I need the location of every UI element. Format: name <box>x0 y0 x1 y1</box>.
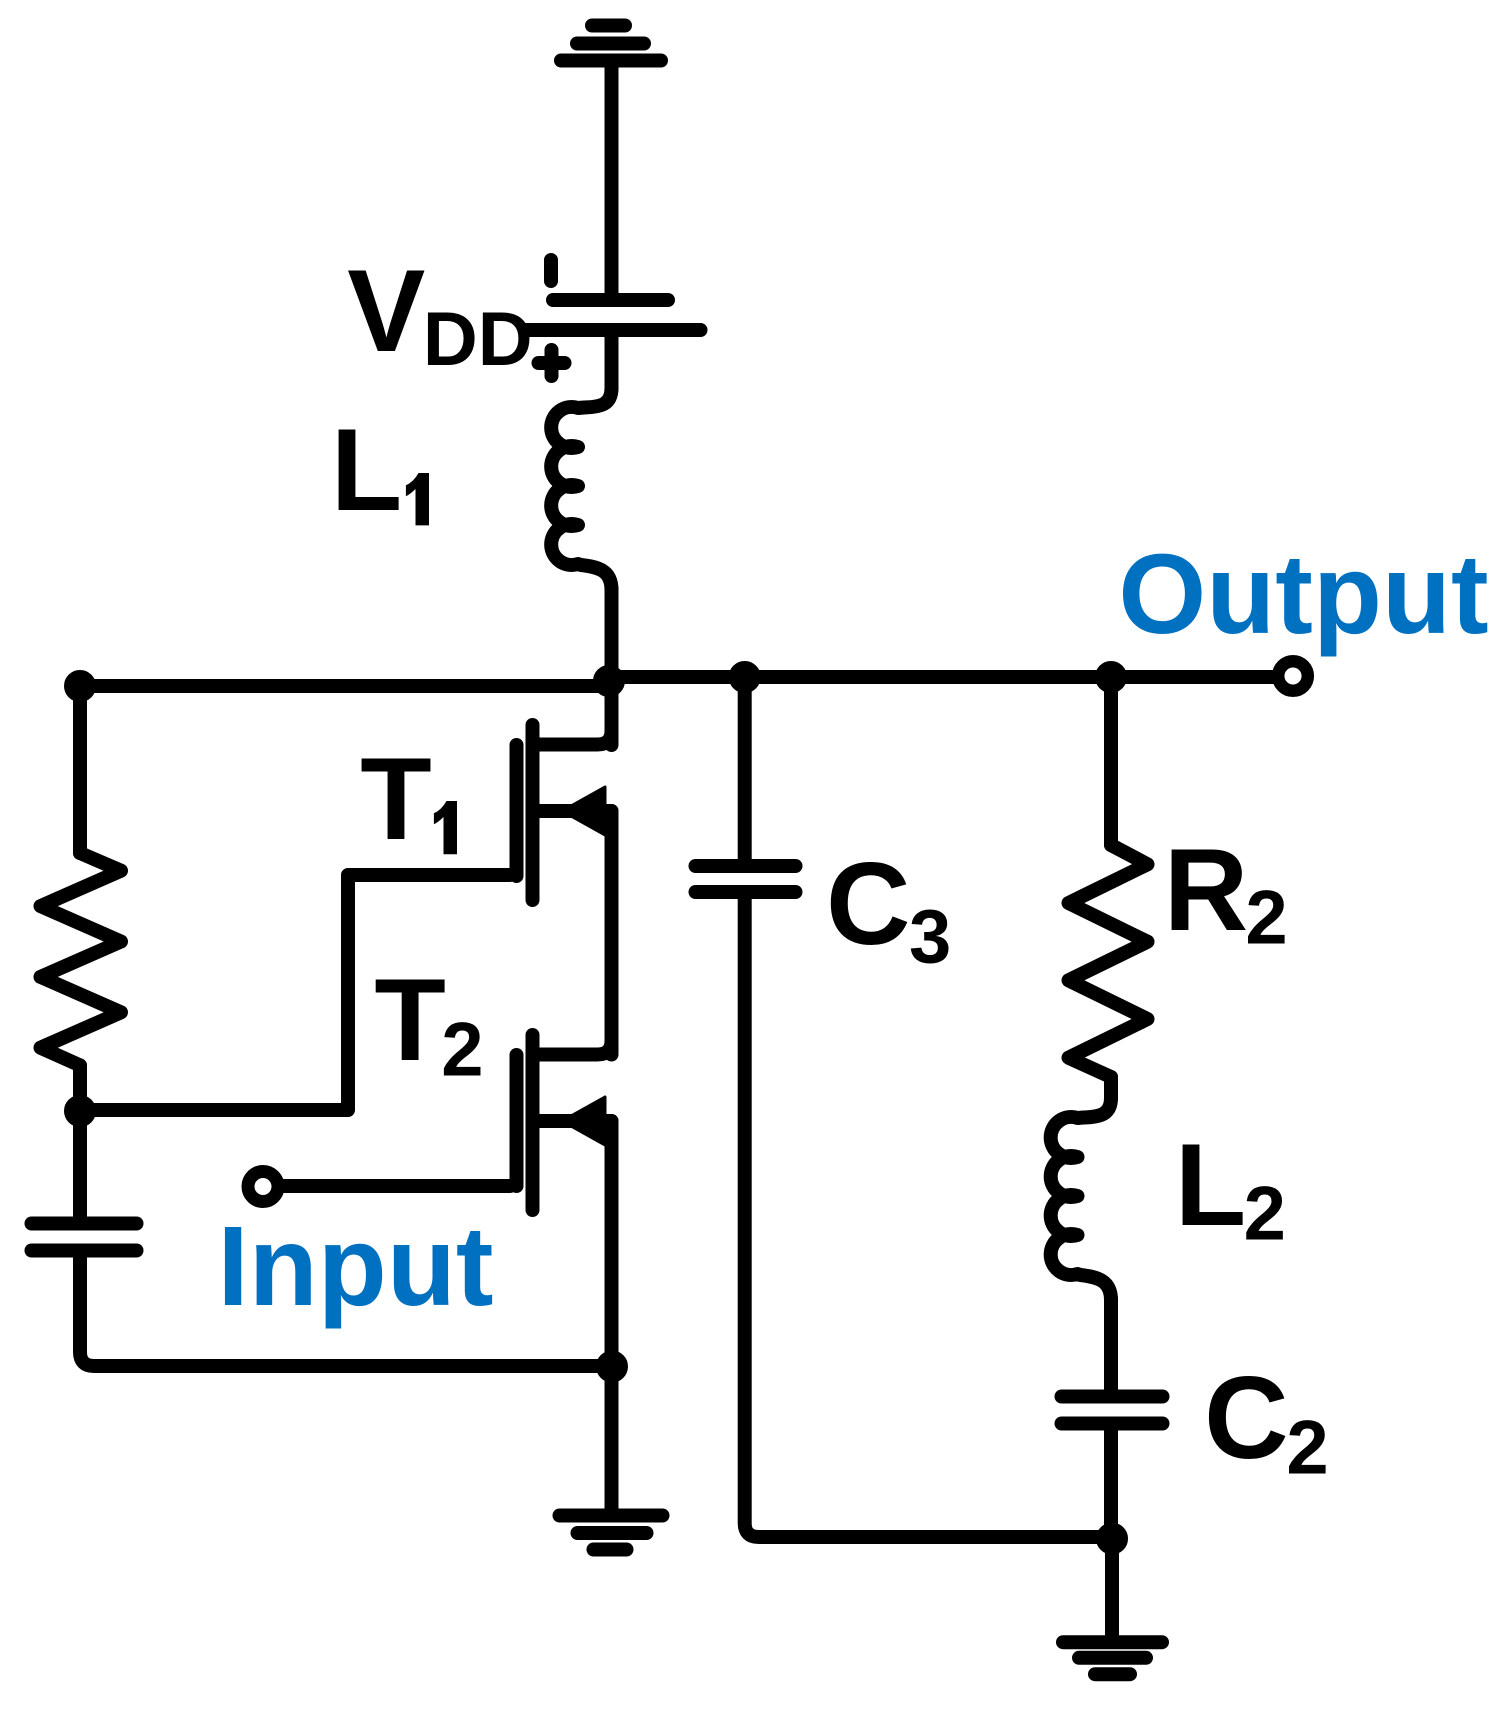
svg-text:2: 2 <box>1245 876 1287 961</box>
label T2 <box>374 954 483 1093</box>
wire: resistor R2 to inductor L2 <box>1104 1077 1118 1099</box>
label C3 <box>826 838 951 980</box>
svg-text:3: 3 <box>909 894 951 979</box>
transistor T1 (channel bar) <box>526 725 540 900</box>
ground (top, at VDD supply) <box>561 26 661 61</box>
wire: capacitor C2 down to ground node <box>1104 1424 1118 1539</box>
capacitor C3 <box>696 866 796 892</box>
wire: output node horizontal (node to output terminal) <box>612 670 1274 684</box>
inductor L2 <box>1051 1098 1111 1300</box>
transistor T2 (channel bar) <box>526 1035 540 1210</box>
wire: bias node down to capacitor C1 <box>73 1111 87 1217</box>
capacitor C1 (bias bypass) <box>32 1224 137 1251</box>
ground (bottom right) <box>1063 1642 1162 1674</box>
transistor T1 (gate plate) <box>510 745 524 876</box>
wire: inductor L1 to drain node <box>605 589 619 745</box>
wire: left node down to resistor R1 <box>73 686 87 853</box>
svg-text:C: C <box>826 838 911 969</box>
node dot at R2 junction <box>1102 668 1120 686</box>
wire: T2 source down to ground <box>605 1121 619 1509</box>
svg-text:Input: Input <box>217 1203 493 1329</box>
wire: capacitor C3 down and right to ground rail <box>745 892 1111 1537</box>
resistor R2 <box>1069 845 1148 1077</box>
wire: R2 node down to resistor R2 <box>1104 677 1118 845</box>
svg-text:C: C <box>1204 1352 1289 1483</box>
wire: input terminal to T2 gate <box>282 1179 510 1193</box>
svg-text:R: R <box>1164 824 1249 955</box>
wire: inductor L2 to capacitor C2 <box>1104 1299 1118 1397</box>
wire: top ground to battery <box>605 61 619 295</box>
transistor T1 (source stub) <box>539 804 612 818</box>
node dot at C2/ground <box>1103 1530 1121 1548</box>
svg-text:T: T <box>360 733 431 864</box>
wire: ground node to right ground <box>1105 1539 1119 1642</box>
svg-text:2: 2 <box>441 1008 483 1093</box>
node dot at bias divider <box>71 1102 89 1120</box>
output terminal (open circle) <box>1278 661 1308 691</box>
wire: battery to inductor L1 <box>605 330 619 389</box>
transistor T2 (source arrow) <box>562 1097 605 1145</box>
svg-text:2: 2 <box>1244 1172 1286 1257</box>
transistor T1 (source arrow) <box>562 787 605 835</box>
node dot at C3 junction <box>736 668 754 686</box>
label VDD <box>347 245 532 382</box>
capacitor C2 <box>1062 1397 1163 1424</box>
wire: capacitor C1 down and right to source rail <box>80 1251 612 1367</box>
battery VDD (cell symbol with +, - tick) <box>527 260 701 376</box>
wire: node to capacitor C3 <box>738 677 752 866</box>
wire: resistor R1 to bias node <box>73 1065 87 1111</box>
input terminal (open circle) <box>248 1172 278 1202</box>
wire: node to left bias branch <box>80 679 612 693</box>
svg-text:DD: DD <box>423 297 533 382</box>
inductor L1 <box>551 388 611 590</box>
svg-text:T: T <box>374 954 445 1085</box>
svg-text:L: L <box>1175 1119 1246 1250</box>
svg-text:2: 2 <box>1286 1406 1328 1491</box>
label C2 <box>1204 1352 1329 1491</box>
svg-text:Output: Output <box>1118 531 1488 657</box>
wire: T1 gate to bias node (left-down-left) <box>80 875 510 1110</box>
resistor R1 (bias resistor, left) <box>41 853 122 1065</box>
transistor T2 (gate plate) <box>510 1055 524 1186</box>
node dot at left bias branch top <box>71 677 89 695</box>
node dot at source/ground rail <box>603 1358 621 1376</box>
svg-text:V: V <box>347 245 425 376</box>
node dot at L1/drain junction <box>600 672 618 690</box>
label L1 <box>331 404 429 535</box>
label L2 <box>1175 1119 1286 1257</box>
label T1 <box>360 733 457 864</box>
wire: T1 source to T2 drain <box>605 811 619 1055</box>
label R2 <box>1164 824 1288 961</box>
svg-text:L: L <box>331 404 402 535</box>
transistor T2 (source stub) <box>539 1114 612 1128</box>
transistor T1 (drain stub) <box>539 700 612 745</box>
ground (below T2 source) <box>560 1516 663 1550</box>
transistor T2 (drain stub) <box>539 1010 612 1055</box>
